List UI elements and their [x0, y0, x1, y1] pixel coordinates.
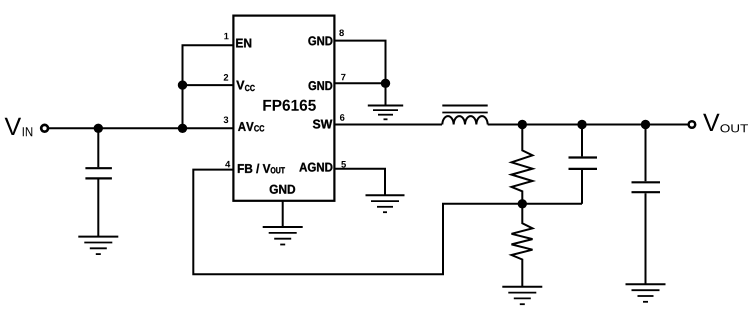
node VOUT terminal	[689, 114, 748, 133]
inductor L1	[442, 106, 487, 125]
resistor R1	[512, 125, 533, 204]
wire IC bottom GND stub	[282, 201, 284, 227]
pin 4 number	[225, 161, 230, 167]
wire feedback node to C2 bottom	[522, 203, 582, 205]
wire pin 8 to pin 7	[335, 41, 386, 84]
node junction dot C1 tap	[94, 124, 103, 133]
pin 8 number	[339, 29, 344, 36]
node junction dot pin3 rail	[178, 124, 187, 133]
resistor R2	[512, 204, 533, 287]
node junction dot pin2	[178, 80, 187, 89]
ground under IC	[263, 227, 303, 245]
pin 2 label VCC	[236, 81, 255, 91]
pin 6 label SW	[313, 120, 332, 129]
ground under C1	[78, 237, 118, 255]
pin 7 label GND	[309, 81, 333, 90]
capacitor C3 output	[632, 125, 661, 285]
pin 8 label GND	[308, 36, 332, 45]
node junction dot feedback	[518, 199, 527, 208]
ground under R2	[502, 287, 542, 305]
pin 2 number	[224, 74, 229, 81]
IC U1 FP6165 body	[233, 16, 334, 201]
wire pin 7 ground lead	[385, 83, 387, 105]
pin 5 number	[341, 161, 346, 168]
pin 3 label AVCC	[238, 122, 264, 131]
ground under pin 5	[366, 195, 405, 212]
pin 6 number	[340, 114, 345, 121]
wire VIN rail to pin 3	[49, 127, 233, 129]
node junction dot R1 top	[518, 120, 527, 129]
wire inductor to VOUT	[488, 124, 688, 126]
capacitor C2 feedforward	[569, 125, 598, 204]
node VIN terminal	[5, 118, 48, 136]
pin 3 number	[224, 116, 229, 123]
wire pin 2 VCC stub	[183, 84, 234, 86]
wire pin 5 AGND	[335, 169, 386, 196]
wire pin 6 SW to inductor	[335, 124, 443, 126]
ground under pin 7	[368, 106, 403, 120]
node junction dot pin7	[381, 79, 390, 88]
ground under C3	[626, 284, 666, 302]
wire pin 7 stub	[335, 82, 386, 84]
node junction dot C2 top	[577, 120, 586, 129]
pin 1 label EN	[236, 39, 251, 48]
wire pin 1 EN to VCC vertical	[183, 45, 234, 128]
pin 5 label AGND	[299, 163, 332, 172]
pin 1 number	[224, 33, 228, 39]
pin 7 number	[341, 74, 345, 80]
pin 4 label FB/VOUT	[238, 164, 285, 174]
node junction dot C3 top	[641, 120, 650, 129]
wire pin 4 FB feedback loop	[193, 170, 522, 275]
IC bottom label GND	[270, 185, 295, 194]
capacitor C1 input	[85, 128, 112, 236]
